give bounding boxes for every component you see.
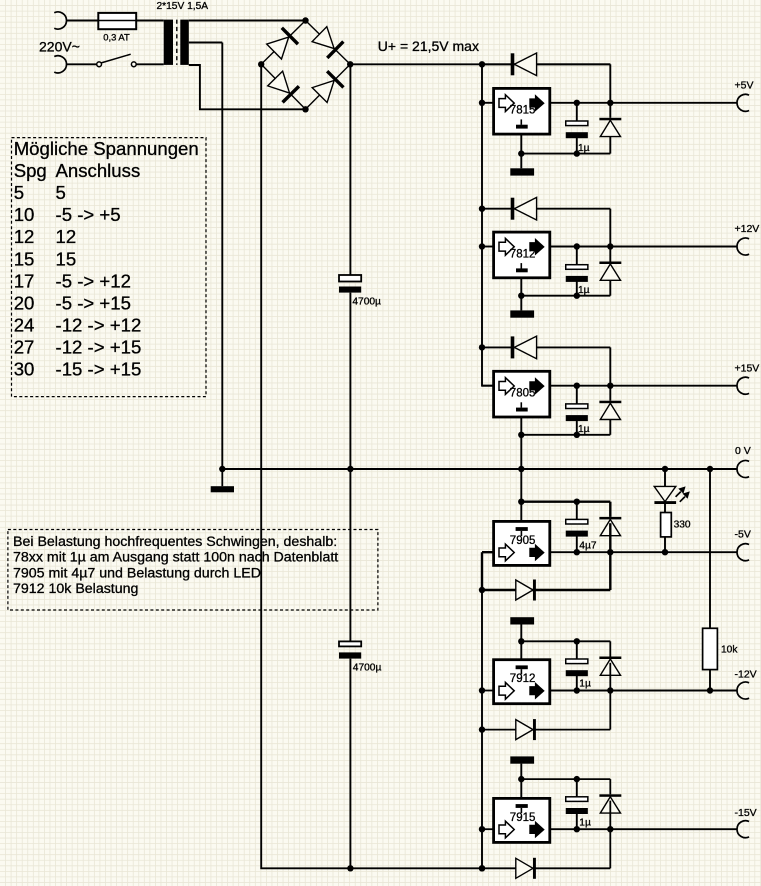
wire: [664, 504, 666, 513]
node: [518, 638, 524, 644]
voltage regulator 7805: [494, 371, 550, 417]
wire: [520, 469, 522, 502]
svg-text:20: 20: [14, 292, 35, 313]
node bridge left: [258, 61, 264, 67]
node bridge top: [302, 17, 308, 23]
ground: [510, 310, 534, 317]
node: [479, 344, 485, 350]
wire: [67, 20, 99, 22]
svg-text:1µ: 1µ: [579, 679, 591, 690]
wire: [576, 641, 578, 690]
wire: [520, 278, 522, 296]
transformer T1 secondary winding: [180, 20, 189, 65]
wire: [709, 469, 711, 628]
wire: [521, 386, 610, 435]
wire: [349, 659, 351, 869]
svg-text:7905 mit 4µ7 und Belastung dur: 7905 mit 4µ7 und Belastung durch LED: [13, 565, 261, 581]
wire: [609, 663, 611, 691]
wire: [189, 65, 306, 109]
wire: [609, 801, 611, 830]
capacitor C2 4700µ: [339, 641, 361, 658]
capacitor 4µ7 (7905): [566, 519, 588, 536]
node: [219, 466, 225, 472]
ground: [211, 469, 234, 492]
wire: [520, 624, 522, 641]
label 4700µ: [352, 297, 381, 308]
label +15V: [735, 362, 760, 374]
svg-text:+5V: +5V: [735, 79, 754, 91]
protection diode 7912: [516, 719, 536, 740]
svg-text:4700µ: 4700µ: [353, 663, 382, 674]
wire 0V line: [222, 468, 737, 470]
diode (7912 output): [599, 657, 621, 676]
bridge diode D1: [267, 28, 298, 59]
wire: [520, 154, 522, 169]
wire: [520, 779, 522, 798]
diode (7905 output): [599, 517, 621, 536]
LED D5: [654, 486, 676, 502]
label +12V: [735, 223, 760, 235]
wire V- rail: [261, 64, 610, 868]
svg-text:10: 10: [14, 204, 35, 225]
node: [662, 466, 668, 472]
wire: [521, 247, 610, 296]
node: [707, 466, 713, 472]
connector -5V: [737, 544, 749, 561]
node: [574, 776, 580, 782]
node: [662, 549, 668, 555]
bridge edge wire: [306, 21, 351, 65]
node: [479, 726, 485, 732]
wire: [609, 691, 611, 730]
wire: [189, 20, 306, 22]
label 1µ: [578, 285, 590, 296]
svg-text:-5 -> +15: -5 -> +15: [56, 292, 131, 313]
wire: [521, 103, 610, 154]
connector +15V: [737, 377, 749, 394]
svg-text:78xx mit 1µ am Ausgang statt 1: 78xx mit 1µ am Ausgang statt 100n nach D…: [13, 550, 338, 566]
svg-text:7905: 7905: [510, 535, 536, 547]
connector +5V: [737, 94, 749, 111]
wire: [550, 102, 737, 104]
wire: [482, 729, 610, 731]
svg-text:330: 330: [674, 520, 691, 531]
wire: [482, 347, 610, 385]
svg-text:5: 5: [14, 182, 24, 203]
label 2*15V 1,5A: [157, 1, 209, 12]
label -12V: [735, 668, 757, 680]
wire: [550, 246, 737, 248]
wire: [482, 209, 610, 247]
node: [479, 243, 485, 249]
wire U+ rail: [350, 63, 610, 65]
svg-text:1µ: 1µ: [578, 143, 590, 154]
bridge edge wire: [261, 21, 305, 65]
capacitor 1µ (7815): [566, 121, 588, 138]
svg-text:5: 5: [56, 182, 66, 203]
node: [479, 61, 485, 67]
diode (7915 output): [599, 794, 621, 813]
label 10k: [721, 645, 738, 656]
svg-text:-5V: -5V: [735, 529, 751, 541]
bridge edge wire: [261, 64, 305, 109]
wire: [482, 64, 610, 103]
svg-text:10k: 10k: [721, 645, 738, 656]
node: [607, 826, 613, 832]
node: [574, 499, 580, 505]
bridge diode D3: [268, 71, 299, 102]
svg-text:-5 -> +12: -5 -> +12: [56, 270, 131, 291]
wire: [482, 690, 494, 692]
svg-text:4700µ: 4700µ: [352, 297, 381, 308]
wire: [664, 469, 666, 486]
svg-text:0,3 AT: 0,3 AT: [103, 31, 130, 42]
wire: [550, 690, 737, 692]
capacitor 1µ (7915): [566, 797, 588, 814]
label 330: [674, 520, 691, 531]
svg-text:1µ: 1µ: [579, 817, 591, 828]
wire negative input rail: [481, 552, 483, 868]
wire: [482, 385, 494, 387]
wire: [609, 552, 611, 590]
svg-text:15: 15: [56, 248, 77, 269]
svg-text:27: 27: [14, 336, 35, 357]
wire: [349, 293, 351, 642]
label 4µ7: [579, 540, 597, 551]
wire: [521, 779, 610, 794]
node: [574, 243, 580, 249]
svg-text:12: 12: [56, 226, 77, 247]
svg-text:17: 17: [14, 270, 35, 291]
label 1µ: [579, 679, 591, 690]
wire: [349, 64, 351, 275]
svg-text:-12 -> +12: -12 -> +12: [56, 314, 142, 335]
svg-text:-15 -> +15: -15 -> +15: [56, 359, 142, 380]
wire: [67, 63, 97, 65]
capacitor C1 4700µ: [339, 275, 361, 293]
svg-text:7912 10k Belastung: 7912 10k Belastung: [13, 581, 138, 597]
node: [607, 383, 613, 389]
svg-text:12: 12: [14, 226, 35, 247]
node: [574, 687, 580, 693]
node: [479, 687, 485, 693]
voltage regulator 7915: [494, 798, 550, 842]
wire: [520, 417, 522, 435]
wire: [576, 502, 578, 553]
label 1µ: [579, 817, 591, 828]
label 0 V: [735, 445, 751, 457]
label 220V~: [39, 38, 80, 54]
ground: [510, 617, 534, 624]
node: [607, 687, 613, 693]
label U+ = 21,5V max: [378, 38, 479, 54]
voltage regulator 7912: [494, 660, 550, 704]
svg-text:Anschluss: Anschluss: [56, 160, 141, 181]
note box (Bei Belastung): [8, 530, 378, 611]
node: [607, 243, 613, 249]
transformer T1 primary winding: [164, 20, 173, 65]
label 4700µ: [353, 663, 382, 674]
svg-text:7915: 7915: [510, 812, 536, 824]
svg-text:-15V: -15V: [735, 807, 757, 819]
wire: [520, 764, 522, 780]
svg-text:7805: 7805: [510, 388, 536, 400]
node: [479, 865, 485, 871]
bridge edge wire: [306, 64, 351, 109]
connector 0V: [737, 461, 749, 478]
ground: [510, 756, 534, 763]
node: [574, 293, 580, 299]
wire: [609, 829, 611, 868]
node: [479, 865, 485, 871]
connector +12V: [737, 238, 749, 255]
svg-text:2*15V 1,5A: 2*15V 1,5A: [157, 1, 209, 12]
connector -15V: [737, 821, 749, 838]
svg-text:7815: 7815: [510, 105, 536, 117]
ground: [510, 168, 534, 175]
connector J1 (mains line): [54, 12, 66, 29]
wire: [576, 779, 578, 829]
node: [518, 432, 524, 438]
label 1µ: [578, 143, 590, 154]
svg-text:220V~: 220V~: [39, 38, 80, 54]
node: [574, 638, 580, 644]
wire: [520, 296, 522, 311]
svg-text:Bei Belastung hochfrequentes S: Bei Belastung hochfrequentes Schwingen, …: [13, 534, 337, 550]
svg-text:-12 -> +15: -12 -> +15: [56, 336, 142, 357]
protection diode 7805: [511, 336, 537, 359]
svg-text:Spg: Spg: [14, 160, 47, 181]
wire: [482, 551, 494, 553]
node: [574, 549, 580, 555]
node: [479, 206, 485, 212]
wire: [520, 502, 522, 522]
wire: [482, 589, 610, 591]
svg-text:1µ: 1µ: [578, 285, 590, 296]
voltage regulator 7905: [494, 521, 550, 565]
svg-text:15: 15: [14, 248, 35, 269]
bridge diode D4: [312, 71, 343, 102]
svg-text:Mögliche Spannungen: Mögliche Spannungen: [14, 138, 199, 159]
wire positive input rail: [482, 64, 494, 385]
resistor R1 330: [661, 513, 672, 537]
node: [707, 687, 713, 693]
node: [479, 587, 485, 593]
wire: [709, 670, 711, 691]
node: [479, 100, 485, 106]
label 0,3 AT: [103, 31, 130, 42]
transformer T1 core: [176, 20, 178, 65]
diode (7805 output): [599, 401, 621, 420]
wire: [136, 63, 164, 65]
capacitor 1µ (7912): [566, 659, 588, 676]
wire: [550, 551, 737, 553]
voltage regulator 7815: [494, 88, 550, 134]
svg-text:0 V: 0 V: [735, 445, 751, 457]
label +5V: [735, 79, 754, 91]
wire: [482, 828, 494, 830]
diode (7812 output): [599, 262, 621, 281]
LED arrows: [676, 486, 690, 501]
node: [574, 826, 580, 832]
node: [518, 499, 524, 505]
node: [518, 150, 524, 156]
node: [574, 100, 580, 106]
wire: [520, 435, 522, 469]
node: [347, 865, 353, 871]
svg-text:30: 30: [14, 359, 35, 380]
svg-text:-12V: -12V: [735, 668, 757, 680]
diode (7815 output): [599, 118, 621, 137]
wire: [550, 828, 737, 830]
connector -12V: [737, 682, 749, 699]
svg-text:U+ = 21,5V max: U+ = 21,5V max: [378, 38, 479, 54]
wire: [664, 537, 666, 552]
node: [518, 293, 524, 299]
protection diode 7812: [511, 197, 537, 220]
voltage regulator 7812: [494, 232, 550, 278]
wire: [482, 102, 494, 104]
svg-text:-5 -> +5: -5 -> +5: [56, 204, 121, 225]
wire: [576, 103, 578, 154]
node: [518, 466, 524, 472]
node: [607, 100, 613, 106]
protection diode 7815: [511, 53, 537, 76]
node: [347, 466, 353, 472]
connector J2 (mains neutral): [54, 56, 66, 73]
capacitor 1µ (7805): [566, 404, 588, 421]
svg-text:+12V: +12V: [735, 223, 760, 235]
svg-text:24: 24: [14, 314, 35, 335]
node: [518, 776, 524, 782]
svg-text:4µ7: 4µ7: [579, 540, 597, 551]
note box (Mögliche Spannungen): [12, 138, 207, 397]
wire: [609, 523, 611, 552]
svg-text:+15V: +15V: [735, 362, 760, 374]
protection diode 7905: [516, 580, 536, 601]
wire: [550, 385, 737, 387]
svg-text:7812: 7812: [510, 248, 536, 260]
node: [574, 383, 580, 389]
bridge diode D2: [312, 27, 343, 58]
wire: [482, 246, 494, 248]
node: [574, 150, 580, 156]
wire: [521, 502, 610, 517]
capacitor 1µ (7812): [566, 265, 588, 282]
fuse F1 0,3AT: [98, 13, 136, 29]
wire: [521, 641, 610, 656]
node bridge right: [347, 61, 353, 67]
label -5V: [735, 529, 751, 541]
svg-text:7912: 7912: [510, 673, 536, 685]
wire: [520, 641, 522, 659]
label -15V: [735, 807, 757, 819]
wire (center tap): [189, 43, 223, 470]
resistor R2 10k: [703, 628, 718, 669]
protection diode 7915: [516, 858, 536, 879]
label 1µ: [578, 424, 590, 435]
node: [574, 432, 580, 438]
node: [607, 549, 613, 555]
wire: [576, 386, 578, 435]
wire: [576, 247, 578, 296]
node: [479, 826, 485, 832]
switch S1: [97, 54, 137, 67]
svg-text:1µ: 1µ: [578, 424, 590, 435]
wire: [136, 20, 164, 22]
wire: [520, 134, 522, 154]
node bridge bottom: [302, 106, 308, 112]
